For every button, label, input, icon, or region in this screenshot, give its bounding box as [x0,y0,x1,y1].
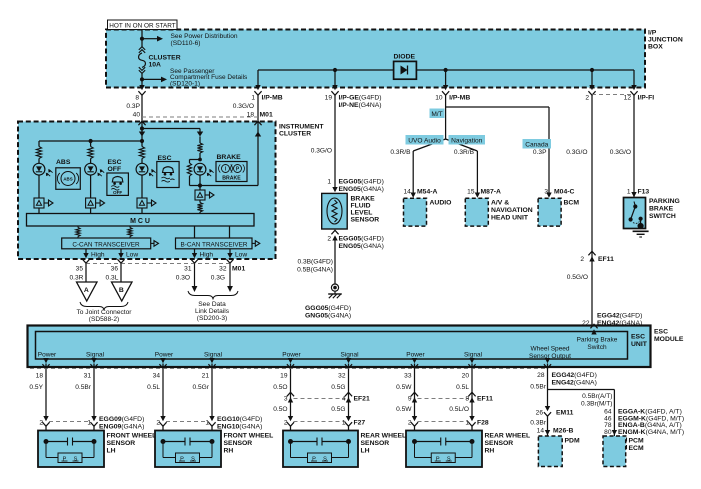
svg-text:CLUSTER: CLUSTER [149,55,181,62]
svg-text:0.3L: 0.3L [106,275,119,282]
svg-text:Power: Power [38,352,57,359]
svg-text:36: 36 [111,266,119,273]
svg-text:0.5G: 0.5G [331,406,345,413]
svg-text:0.5W: 0.5W [396,384,412,391]
svg-text:0.5Br: 0.5Br [75,384,92,391]
svg-text:0.5G: 0.5G [331,384,345,391]
svg-text:REAR WHEEL: REAR WHEEL [485,433,531,440]
svg-text:32: 32 [219,266,227,273]
svg-text:F13: F13 [638,189,650,196]
svg-text:ABS: ABS [63,177,72,182]
svg-text:ENGM-K(G4NA, M/T): ENGM-K(G4NA, M/T) [618,429,684,436]
svg-text:18: 18 [36,373,44,380]
svg-text:ENG10(G4NA): ENG10(G4NA) [217,424,262,431]
svg-text:34: 34 [153,373,161,380]
svg-text:EM11: EM11 [556,410,574,417]
svg-text:8: 8 [465,396,469,403]
svg-text:14: 14 [403,189,411,196]
svg-text:A/V &: A/V & [491,200,509,207]
svg-text:0.5O: 0.5O [273,406,287,413]
svg-text:RH: RH [485,448,495,455]
svg-text:M87-A: M87-A [481,189,501,196]
svg-text:High: High [91,252,105,259]
svg-text:SENSOR: SENSOR [485,440,514,447]
svg-text:0.5Br(A/T): 0.5Br(A/T) [582,393,612,400]
svg-text:9: 9 [408,396,412,403]
svg-text:I/P: I/P [648,30,657,37]
svg-text:ESC: ESC [108,159,122,166]
svg-text:0.5B(G4NA): 0.5B(G4NA) [297,267,333,274]
svg-text:NAVIGATION: NAVIGATION [491,207,533,214]
svg-text:2: 2 [408,420,412,427]
svg-text:0.3B(G4FD): 0.3B(G4FD) [297,259,333,266]
svg-text:RH: RH [224,448,234,455]
svg-text:31: 31 [184,266,192,273]
svg-text:C-CAN TRANSCEIVER: C-CAN TRANSCEIVER [72,241,140,248]
svg-text:1: 1 [627,189,631,196]
svg-text:P: P [436,457,440,463]
svg-text:26: 26 [536,410,544,417]
svg-text:33: 33 [404,373,412,380]
svg-text:PCM: PCM [629,438,644,445]
svg-text:Navigation: Navigation [451,137,482,144]
svg-text:28: 28 [537,372,545,379]
svg-text:0.3Br(M/T): 0.3Br(M/T) [581,401,613,408]
svg-text:S: S [74,457,78,463]
svg-text:Link Details: Link Details [195,308,230,315]
svg-text:1: 1 [342,420,346,427]
svg-text:(SD200-3): (SD200-3) [197,315,227,322]
svg-text:1: 1 [465,420,469,427]
svg-text:Signal: Signal [340,352,359,359]
svg-text:0.5W: 0.5W [396,406,412,413]
svg-text:1: 1 [205,420,209,427]
svg-text:B-CAN TRANSCEIVER: B-CAN TRANSCEIVER [181,241,248,248]
svg-text:0.5L: 0.5L [147,384,160,391]
svg-text:2: 2 [284,420,288,427]
svg-text:0.5L: 0.5L [456,384,469,391]
svg-text:I/P-NE(G4NA): I/P-NE(G4NA) [339,102,382,109]
svg-text:BCM: BCM [564,200,580,207]
svg-text:P: P [180,457,184,463]
svg-text:ENG09(G4NA): ENG09(G4NA) [99,424,144,431]
svg-text:0.3P: 0.3P [533,149,547,156]
svg-text:Low: Low [235,252,247,259]
svg-text:0.5Br: 0.5Br [530,384,547,391]
svg-text:EF11: EF11 [598,256,614,263]
svg-text:0.3P: 0.3P [126,103,140,110]
svg-text:Wheel Speed: Wheel Speed [530,346,569,353]
svg-text:M26-B: M26-B [553,428,573,435]
svg-text:8: 8 [135,95,139,102]
svg-text:S: S [191,457,195,463]
svg-text:0.3G/O: 0.3G/O [233,103,254,110]
svg-text:32: 32 [338,373,346,380]
svg-text:12: 12 [624,95,632,102]
svg-text:21: 21 [202,373,210,380]
svg-text:40: 40 [133,112,141,119]
svg-text:LH: LH [361,448,370,455]
svg-text:19: 19 [280,373,288,380]
svg-text:PDM: PDM [565,438,580,445]
svg-text:0.3R: 0.3R [69,275,83,282]
svg-text:HOT IN ON OR START: HOT IN ON OR START [109,23,175,30]
svg-text:EGG42(G4FD): EGG42(G4FD) [552,372,597,379]
svg-text:ENG05(G4NA): ENG05(G4NA) [339,186,384,193]
svg-text:PARKING: PARKING [649,198,680,205]
svg-text:0.3R/B: 0.3R/B [454,149,475,156]
svg-text:Signal: Signal [204,352,223,359]
svg-text:M/T: M/T [431,111,442,118]
svg-text:EGG10(G4FD): EGG10(G4FD) [217,416,262,423]
svg-text:SENSOR: SENSOR [361,440,390,447]
svg-text:10: 10 [435,95,443,102]
svg-text:M C U: M C U [130,218,150,225]
svg-text:I/P-FI: I/P-FI [638,95,655,102]
svg-text:M54-A: M54-A [417,189,437,196]
svg-text:EGG09(G4FD): EGG09(G4FD) [99,416,144,423]
svg-text:M01: M01 [260,112,273,119]
svg-text:To Joint Connector: To Joint Connector [77,309,133,316]
svg-text:3: 3 [284,396,288,403]
svg-text:1: 1 [251,95,255,102]
svg-text:I/P-GE(G4FD): I/P-GE(G4FD) [339,95,382,102]
svg-text:0.3Br: 0.3Br [530,420,547,427]
svg-text:BRAKE: BRAKE [222,176,241,182]
svg-text:0.5Y: 0.5Y [29,384,43,391]
svg-text:I/P-MB: I/P-MB [262,95,283,102]
svg-text:OFF: OFF [113,190,122,195]
svg-text:Power: Power [406,352,425,359]
svg-text:BRAKE: BRAKE [649,206,674,213]
svg-text:EGG05(G4FD): EGG05(G4FD) [339,236,384,243]
svg-text:0.5O: 0.5O [273,384,287,391]
svg-text:P: P [312,457,316,463]
svg-text:0.5G/O: 0.5G/O [567,274,588,281]
svg-text:Switch: Switch [587,344,607,351]
svg-text:SWITCH: SWITCH [649,213,676,220]
svg-text:EF21: EF21 [354,396,370,403]
svg-text:15: 15 [467,189,475,196]
svg-text:S: S [447,457,451,463]
svg-text:GNG05(G4NA): GNG05(G4NA) [305,313,351,320]
svg-text:0.3R/B: 0.3R/B [390,149,411,156]
svg-text:2: 2 [580,256,584,263]
svg-text:EGG05(G4FD): EGG05(G4FD) [339,179,384,186]
svg-text:High: High [200,252,214,259]
svg-text:ENG42(G4NA): ENG42(G4NA) [552,380,597,387]
svg-text:AUDIO: AUDIO [430,200,452,207]
svg-text:ABS: ABS [56,159,71,166]
svg-text:FRONT WHEEL: FRONT WHEEL [107,433,157,440]
svg-text:Power: Power [282,352,301,359]
svg-text:REAR WHEEL: REAR WHEEL [361,433,407,440]
svg-text:0.3O: 0.3O [176,275,190,282]
svg-text:LEVEL: LEVEL [351,210,373,217]
svg-text:20: 20 [462,373,470,380]
svg-text:2: 2 [156,420,160,427]
svg-text:FLUID: FLUID [351,203,371,210]
svg-text:P: P [63,457,67,463]
svg-text:(SD110-6): (SD110-6) [171,40,201,47]
svg-text:4: 4 [342,396,346,403]
svg-text:Parking Brake: Parking Brake [577,337,618,344]
svg-text:2: 2 [39,420,43,427]
svg-text:MODULE: MODULE [654,336,684,343]
svg-text:M04-C: M04-C [554,189,574,196]
svg-text:FRONT WHEEL: FRONT WHEEL [224,433,274,440]
svg-text:EF11: EF11 [477,396,493,403]
svg-text:0.3G/O: 0.3G/O [311,148,332,155]
svg-text:A: A [84,287,89,294]
svg-text:I/P-MB: I/P-MB [449,95,470,102]
svg-text:Signal: Signal [464,352,483,359]
svg-text:ESC: ESC [654,329,668,336]
svg-text:(SD588-2): (SD588-2) [89,316,119,323]
svg-text:Signal: Signal [86,352,105,359]
svg-text:S: S [323,457,327,463]
svg-text:ESC: ESC [631,334,645,341]
svg-text:80: 80 [604,429,612,436]
svg-text:BRAKE: BRAKE [351,196,376,203]
svg-text:Low: Low [126,252,138,259]
svg-text:LH: LH [107,448,116,455]
svg-text:EGG42(G4FD): EGG42(G4FD) [597,313,642,320]
svg-text:Sensor Output: Sensor Output [529,353,571,360]
svg-text:0.3G/O: 0.3G/O [610,149,631,156]
svg-text:Canada: Canada [525,141,548,148]
svg-text:0.5Gr: 0.5Gr [193,384,210,391]
svg-text:(SD120-1): (SD120-1) [170,81,200,88]
svg-text:Power: Power [155,352,174,359]
svg-text:ENG05(G4NA): ENG05(G4NA) [339,243,384,250]
svg-text:F28: F28 [477,420,489,427]
svg-text:SENSOR: SENSOR [351,217,380,224]
svg-text:14: 14 [537,428,545,435]
svg-text:JUNCTION: JUNCTION [648,37,683,44]
svg-text:M01: M01 [232,266,245,273]
svg-text:OFF: OFF [108,166,122,173]
svg-text:INSTRUMENT: INSTRUMENT [279,124,324,131]
svg-text:0.3G/O: 0.3G/O [566,149,587,156]
svg-text:SENSOR: SENSOR [224,440,253,447]
svg-text:31: 31 [84,373,92,380]
svg-text:ECM: ECM [629,445,644,452]
svg-text:GGG05(G4FD): GGG05(G4FD) [305,305,351,312]
svg-text:10A: 10A [149,62,162,69]
svg-text:See Data: See Data [198,301,226,308]
svg-text:1: 1 [327,179,331,186]
svg-text:B: B [119,287,124,294]
svg-text:See Power Distribution: See Power Distribution [171,33,238,40]
svg-text:CLUSTER: CLUSTER [279,131,311,138]
svg-text:BOX: BOX [648,44,663,51]
svg-text:UVO Audio: UVO Audio [408,137,441,144]
svg-text:DIODE: DIODE [394,54,416,61]
svg-text:1: 1 [87,420,91,427]
svg-text:BRAKE: BRAKE [217,154,242,161]
svg-text:SENSOR: SENSOR [107,440,136,447]
svg-text:0.5L/O: 0.5L/O [449,406,469,413]
svg-text:F27: F27 [354,420,366,427]
svg-text:19: 19 [325,95,333,102]
svg-text:HEAD UNIT: HEAD UNIT [491,215,529,222]
svg-text:UNIT: UNIT [631,341,648,348]
svg-text:0.3G: 0.3G [211,275,225,282]
svg-text:2: 2 [585,95,589,102]
svg-text:35: 35 [76,266,84,273]
svg-text:2: 2 [327,236,331,243]
